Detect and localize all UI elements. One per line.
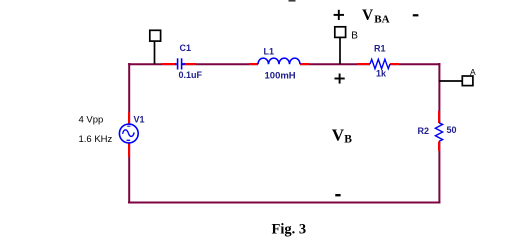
C1 value label 0.1uF (179, 70, 203, 80)
V1 reference label (134, 115, 145, 125)
wire pin-lead segment (red) above V1 (128, 112, 130, 125)
wire pin-lead segment (red) left of C1 (162, 63, 176, 65)
inductor L1 (258, 58, 300, 65)
L1 value label 100mH (265, 71, 296, 82)
svg-text:BA: BA (374, 13, 389, 25)
wire left (128, 63, 130, 203)
R2 value label 50 (447, 125, 457, 135)
svg-text:B: B (344, 134, 352, 146)
svg-text:Fig. 3: Fig. 3 (272, 222, 307, 238)
R2 reference label (418, 126, 430, 136)
annotation minus sign (V_BA polarity -) (413, 14, 419, 16)
wire pin-lead segment (red) left of L1 (249, 63, 258, 65)
svg-text:V: V (362, 7, 374, 24)
svg-text:A: A (470, 67, 476, 77)
wire pin-lead segment (red) below V1 (128, 142, 130, 157)
terminal A (open square) with stub wire (439, 76, 473, 86)
R1 value label 1k (376, 69, 387, 79)
V1 annotation 1.6 KHz (79, 134, 113, 145)
wire pin-lead segment (red) right of C1 (184, 63, 196, 65)
resistor R1 (370, 59, 390, 68)
L1 reference label (264, 47, 275, 57)
svg-text:B: B (351, 31, 358, 42)
wire pin-lead segment (red) left of R1 (357, 63, 370, 65)
svg-text:R1: R1 (374, 44, 386, 54)
svg-text:L1: L1 (264, 47, 275, 57)
annotation plus sign (V_BA polarity +) (334, 10, 344, 20)
annotation V_B label (332, 125, 352, 145)
svg-text:100mH: 100mH (265, 71, 296, 82)
wire pin-lead segment (red) right of L1 (300, 63, 309, 65)
wire pin-lead segment (red) right of R1 (390, 63, 399, 65)
wire top (net) (128, 63, 440, 65)
cropped text smudge at top edge (289, 0, 296, 2)
R1 reference label (374, 44, 386, 54)
node B label (351, 31, 358, 42)
svg-text:C1: C1 (180, 43, 192, 53)
V1 annotation 4 Vpp (79, 115, 104, 126)
C1 reference label (180, 43, 192, 53)
svg-text:V1: V1 (134, 115, 145, 125)
wire pin-lead segment (red) above R2 (438, 111, 440, 123)
wire bottom (128, 202, 440, 204)
caption Fig. 3 (272, 222, 307, 238)
svg-text:50: 50 (447, 125, 457, 135)
source V1 (sine source) (119, 124, 138, 143)
annotation V_BA label (362, 7, 390, 26)
capacitor C1 (175, 57, 185, 71)
svg-text:0.1uF: 0.1uF (179, 70, 203, 80)
terminal (open square) top-left (150, 30, 161, 64)
svg-text:V: V (332, 125, 345, 144)
svg-text:1.6 KHz: 1.6 KHz (79, 134, 113, 145)
wire pin-lead segment (red) below R2 (438, 141, 440, 151)
svg-text:4 Vpp: 4 Vpp (79, 115, 104, 126)
annotation plus sign (V_B polarity +) (335, 74, 345, 84)
svg-text:R2: R2 (418, 126, 430, 136)
annotation minus sign (V_B polarity -) (335, 194, 340, 196)
resistor R2 (435, 123, 442, 142)
terminal B (open square) (335, 27, 346, 64)
svg-text:1k: 1k (376, 69, 387, 79)
node A label (470, 67, 476, 77)
wire right (438, 63, 440, 203)
